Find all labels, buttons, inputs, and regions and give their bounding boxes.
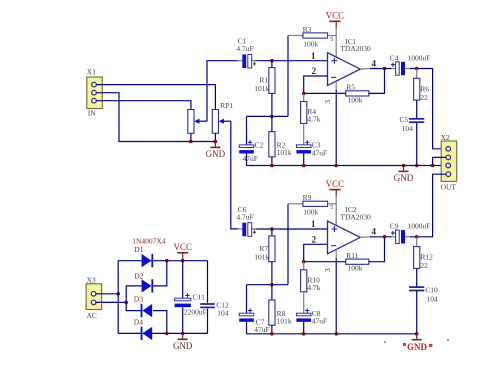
junction C8 bottom <box>302 332 306 336</box>
wire IC2 pin2 to node <box>304 244 328 261</box>
wire C6 to IC2 pin1 <box>252 228 328 230</box>
resistor R11 <box>346 237 385 273</box>
svg-text:100k: 100k <box>303 39 318 48</box>
wire C1 to IC1 pin1 <box>252 60 328 62</box>
junction C3 bottom <box>302 164 306 168</box>
svg-text:3: 3 <box>323 100 332 104</box>
capacitor C11 <box>175 261 207 334</box>
capacitor C3 <box>296 140 327 165</box>
svg-text:100k: 100k <box>348 264 363 273</box>
wire IC1 pin3 to ground rail <box>335 81 337 166</box>
svg-text:22: 22 <box>420 93 428 102</box>
wire X1 pin2 to ground rail <box>96 93 215 142</box>
svg-text:C9: C9 <box>390 222 399 231</box>
junction C1-R1 <box>270 59 274 63</box>
svg-text:3: 3 <box>323 268 332 272</box>
pin label 2 IC2 <box>312 235 317 245</box>
svg-text:VCC: VCC <box>326 179 345 189</box>
junction R8 bottom <box>270 332 274 336</box>
resistor R3 <box>288 25 336 49</box>
svg-text:5: 5 <box>330 37 333 43</box>
svg-text:RP1: RP1 <box>220 101 233 110</box>
svg-text:D1: D1 <box>134 245 143 254</box>
wire VCC to IC1 pin5 <box>330 28 336 57</box>
wire C7 lead <box>246 285 248 314</box>
pin label 4 IC1 <box>372 58 377 68</box>
wire bridge mid vertical <box>126 286 141 311</box>
svg-text:1: 1 <box>311 219 316 229</box>
svg-text:5: 5 <box>330 205 333 211</box>
junction IC1 pin3 rail <box>334 164 338 168</box>
wire bridge left vertical <box>117 261 119 334</box>
power VCC IC2 <box>326 179 345 196</box>
resistor R12 <box>414 237 434 287</box>
resistor R5 <box>346 69 385 105</box>
junction C11 bottom <box>181 332 185 336</box>
svg-text:TDA2030: TDA2030 <box>340 213 371 222</box>
ground GND on channel1 rail <box>394 166 414 184</box>
wire D3 anode down <box>153 311 167 334</box>
wire D2 cathode up <box>153 261 167 286</box>
svg-text:C4: C4 <box>390 53 399 62</box>
wire node C2-R1-R3 <box>247 115 289 117</box>
connector X2 <box>441 133 457 191</box>
junction C4-R6 <box>415 67 419 71</box>
ground GND supply <box>173 333 193 351</box>
pin label 1 IC2 <box>311 219 316 229</box>
svg-text:X1: X1 <box>87 68 96 77</box>
wire R3 left vertical <box>287 36 289 117</box>
wire X1 pin1 to RP1a top <box>96 85 215 110</box>
junction D2 top rail <box>165 259 169 263</box>
svg-text:C5: C5 <box>400 115 409 124</box>
wire X1 pin3 to RP1b top <box>96 101 191 110</box>
wire R9 left vertical <box>287 204 289 285</box>
svg-text:4.7k: 4.7k <box>307 115 320 124</box>
svg-text:1000uF: 1000uF <box>408 53 431 62</box>
junction IC2 pin3 rail <box>334 332 338 336</box>
junction output-R11 <box>383 235 387 239</box>
junction D3 bottom rail <box>165 332 169 336</box>
resistor R10 <box>301 262 321 314</box>
wire bridge bottom row <box>118 332 207 334</box>
ground GND channel2 rail <box>384 334 449 352</box>
capacitor C9 <box>390 222 431 244</box>
connector X3 <box>86 275 102 320</box>
svg-text:2: 2 <box>312 235 317 245</box>
junction X2 pin2 rail <box>431 164 435 168</box>
svg-text:101k: 101k <box>254 253 269 262</box>
capacitor C1 <box>236 37 256 68</box>
wire node C7-R7-R9 <box>247 284 289 286</box>
junction output-R5 <box>383 67 387 71</box>
svg-text:101k: 101k <box>277 316 292 325</box>
wire RP1a wiper to C6 <box>231 121 238 229</box>
diode D3 <box>134 294 152 317</box>
svg-text:C2: C2 <box>255 141 264 150</box>
resistor R7 <box>254 229 275 285</box>
wire bridge top row <box>118 260 207 262</box>
junction C6-R7 <box>270 227 274 231</box>
svg-text:4.7uF: 4.7uF <box>236 213 253 222</box>
resistor R1 <box>254 61 275 117</box>
junction RP1a bottom <box>214 140 218 144</box>
svg-text:4: 4 <box>372 227 377 237</box>
pin label 3 IC1 <box>323 100 332 104</box>
connector X1 <box>87 68 103 118</box>
svg-text:VCC: VCC <box>173 242 192 252</box>
wire C4 to X2 pin1 <box>410 69 446 149</box>
wire VCC to IC2 pin5 <box>330 196 336 225</box>
svg-text:C11: C11 <box>193 292 205 301</box>
wire bridge right vertical top <box>207 261 209 303</box>
resistor R4 <box>301 93 321 144</box>
ground GND under RP1 <box>206 142 226 160</box>
junction GND rail <box>402 164 406 168</box>
capacitor C8 <box>296 308 327 333</box>
svg-text:47uF: 47uF <box>312 317 327 326</box>
wire RP1b wiper to C1 <box>207 61 238 121</box>
svg-text:2200uF: 2200uF <box>184 308 207 317</box>
junction X3 pin1 <box>116 292 120 296</box>
svg-text:1: 1 <box>311 51 316 61</box>
capacitor C12 <box>200 301 229 318</box>
wire C2 lead <box>246 116 248 144</box>
junction VCC rail <box>181 259 185 263</box>
power VCC supply <box>173 242 192 261</box>
svg-text:47uF: 47uF <box>254 325 269 334</box>
resistor R8 <box>269 285 292 334</box>
op-amp IC1 TDA2030 <box>328 37 372 86</box>
pin label 1 IC1 <box>311 51 316 61</box>
svg-text:TDA2030: TDA2030 <box>340 44 371 53</box>
pin label 4 IC2 <box>372 227 377 237</box>
svg-text:D2: D2 <box>134 272 143 281</box>
resistor R2 <box>269 116 292 165</box>
wire node to R5 <box>304 92 346 94</box>
resistor R9 <box>288 193 336 217</box>
svg-text:22: 22 <box>420 261 428 270</box>
svg-text:D3: D3 <box>134 294 143 303</box>
wire X2 pin4 to channel2 output <box>410 174 446 237</box>
svg-text:GND: GND <box>394 173 414 183</box>
svg-text:D4: D4 <box>134 317 143 326</box>
resistor R6 <box>414 69 430 119</box>
junction inverting node IC1 <box>302 92 306 96</box>
junction C5 bottom <box>415 164 419 168</box>
svg-text:GND: GND <box>173 341 193 351</box>
svg-text:R5: R5 <box>346 83 355 92</box>
wire IC1 output <box>360 68 392 71</box>
svg-text:104: 104 <box>402 124 414 133</box>
svg-text:C10: C10 <box>425 286 438 295</box>
diode D2 <box>134 272 153 293</box>
potentiometer RP1 section B wiper <box>194 119 207 124</box>
svg-text:1000uF: 1000uF <box>408 222 431 231</box>
svg-text:101k: 101k <box>254 84 269 93</box>
capacitor C6 <box>236 205 256 236</box>
svg-text:4: 4 <box>372 58 377 68</box>
wire X3 pin1 to bridge <box>96 293 118 295</box>
junction R2 bottom <box>270 164 274 168</box>
svg-text:R11: R11 <box>346 251 358 260</box>
svg-text:47uF: 47uF <box>312 148 327 157</box>
svg-text:2: 2 <box>312 66 317 76</box>
junction C9-R12 <box>415 235 419 239</box>
wire IC2 pin3 to ground rail <box>335 249 337 333</box>
svg-text:104: 104 <box>427 295 439 304</box>
svg-text:100k: 100k <box>303 208 318 217</box>
svg-text:GND: GND <box>407 342 428 352</box>
capacitor C7 <box>239 308 269 334</box>
junction R7 bottom <box>270 283 274 287</box>
junction C10 bottom <box>415 332 419 336</box>
diode D1 <box>134 245 153 267</box>
wire IC2 output <box>360 236 392 239</box>
junction inverting node IC2 <box>302 260 306 264</box>
svg-text:100k: 100k <box>348 95 363 104</box>
svg-text:GND: GND <box>206 149 226 159</box>
svg-text:VCC: VCC <box>326 11 345 21</box>
pin label 2 IC1 <box>312 66 317 76</box>
wire ground rail channel1 <box>247 165 446 167</box>
op-amp IC2 TDA2030 <box>328 205 372 254</box>
wire node to R11 <box>304 261 346 263</box>
junction RP1b bottom <box>189 140 193 144</box>
junction R1 bottom <box>270 115 274 119</box>
svg-text:104: 104 <box>217 308 229 317</box>
wire X3 pin2 to bridge <box>96 301 126 303</box>
svg-text:4.7k: 4.7k <box>307 283 320 292</box>
svg-text:X2: X2 <box>441 133 450 142</box>
svg-text:AC: AC <box>87 311 97 320</box>
svg-text:X3: X3 <box>87 275 96 284</box>
potentiometer RP1 section B body <box>188 110 194 142</box>
label 1N4007X4 <box>132 237 166 246</box>
wire ground rail channel2 <box>247 333 417 335</box>
svg-text:4.7uF: 4.7uF <box>236 44 253 53</box>
wire X2 pin2 to rail <box>433 157 446 165</box>
junction X3 pin2 <box>124 301 128 305</box>
potentiometer RP1 section A body <box>212 110 218 142</box>
capacitor C4 <box>390 53 431 75</box>
capacitor C2 <box>239 140 263 165</box>
pin label 3 IC2 <box>323 268 332 272</box>
wire IC1 pin2 to node <box>304 76 328 93</box>
potentiometer RP1 label <box>220 101 233 110</box>
svg-text:OUT: OUT <box>441 182 457 191</box>
capacitor C5 <box>400 115 425 165</box>
svg-text:101k: 101k <box>277 148 292 157</box>
wire bridge right vertical bottom <box>207 309 209 334</box>
capacitor C10 <box>409 286 438 334</box>
diode D4 <box>134 317 152 340</box>
svg-text:47uF: 47uF <box>243 154 258 163</box>
svg-text:IN: IN <box>88 108 96 117</box>
power VCC IC1 <box>326 11 345 28</box>
potentiometer RP1 section A wiper <box>219 119 231 124</box>
